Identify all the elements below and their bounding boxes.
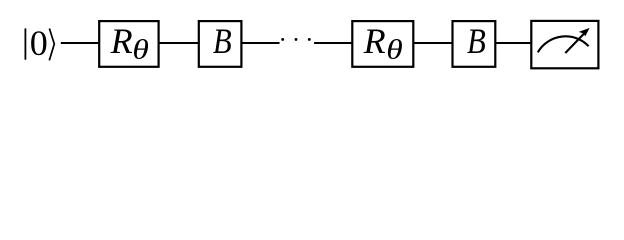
svg-text:R: R: [110, 21, 133, 61]
meter arrowhead: [579, 28, 590, 36]
svg-text:0: 0: [30, 23, 48, 63]
svg-text:R: R: [363, 21, 386, 61]
svg-text:B: B: [213, 21, 232, 61]
gate box R theta 2: [352, 21, 413, 67]
svg-text:θ: θ: [386, 33, 403, 64]
ket |0> label: [25, 23, 54, 63]
meter arc: [538, 36, 589, 52]
wire: [61, 42, 280, 44]
gate box R theta 1: [99, 21, 158, 67]
gate box B 1: [199, 21, 242, 67]
node ellipsis dots: [281, 38, 310, 41]
meter needle: [565, 33, 584, 53]
wire: [314, 42, 531, 44]
gate box B 2: [453, 21, 496, 67]
meter box: [531, 21, 598, 68]
svg-text:θ: θ: [132, 33, 149, 64]
svg-text:B: B: [467, 21, 486, 61]
